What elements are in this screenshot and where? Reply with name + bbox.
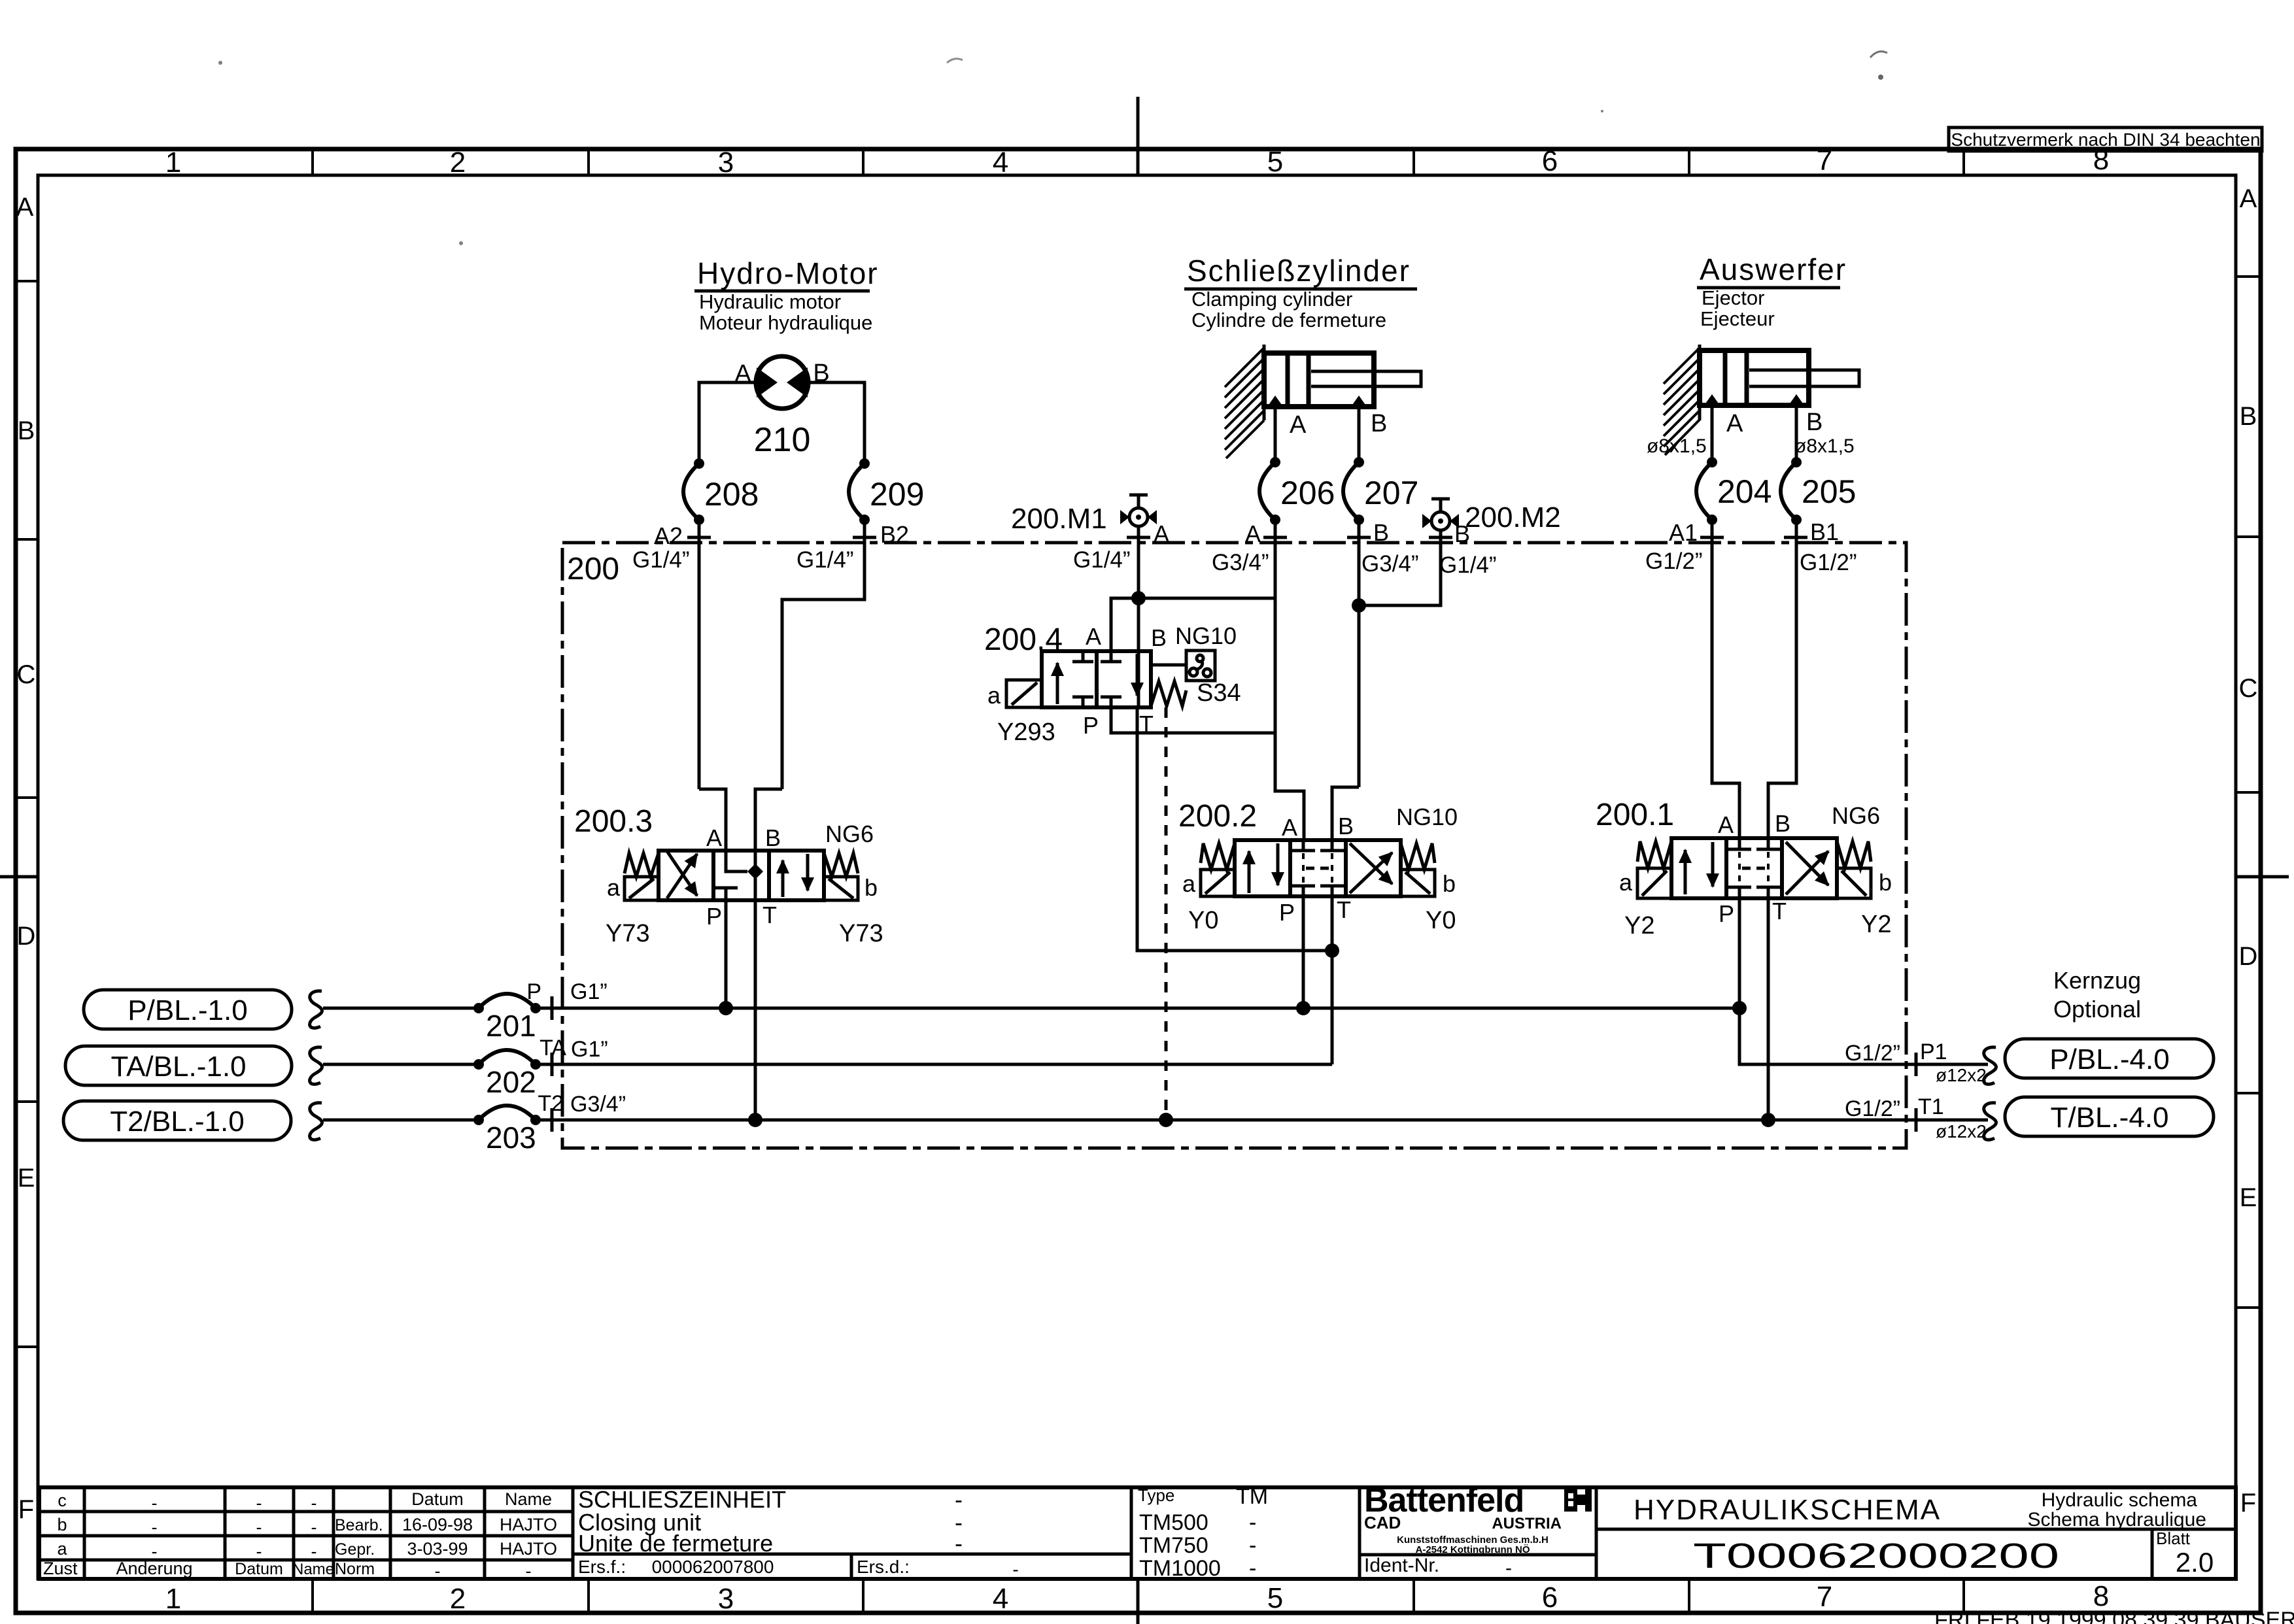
ejector port B bbox=[1789, 394, 1804, 405]
svg-text:200.1: 200.1 bbox=[1596, 798, 1674, 832]
svg-text:a: a bbox=[1182, 870, 1196, 897]
top grid numbers bbox=[165, 144, 2109, 178]
svg-text:Y73: Y73 bbox=[839, 920, 883, 947]
svg-text:5: 5 bbox=[1267, 1582, 1283, 1614]
coupling 204 bbox=[1696, 457, 1772, 525]
P rail bbox=[536, 1007, 1739, 1010]
left port ticks bbox=[551, 996, 554, 1132]
wire junction M1 to cylinder A line bbox=[1138, 597, 1275, 600]
svg-text:2: 2 bbox=[450, 146, 466, 178]
coupling 202 bbox=[473, 1050, 541, 1099]
thread size labels bbox=[632, 547, 1857, 578]
svg-text:200.2: 200.2 bbox=[1178, 799, 1257, 834]
junction dots bbox=[1131, 591, 1146, 605]
svg-text:A-2542 Kottingbrunn NÖ: A-2542 Kottingbrunn NÖ bbox=[1416, 1544, 1530, 1555]
svg-text:A2: A2 bbox=[654, 522, 683, 549]
valve 200.2 right spring bbox=[1401, 843, 1435, 870]
T1 squiggle bbox=[1984, 1103, 1996, 1140]
svg-text:Datum: Datum bbox=[411, 1489, 464, 1509]
svg-text:3-03-99: 3-03-99 bbox=[407, 1539, 468, 1559]
svg-text:T00062000200: T00062000200 bbox=[1693, 1536, 2059, 1576]
svg-text:4: 4 bbox=[993, 146, 1008, 178]
Battenfeld logo mark bbox=[1564, 1488, 1592, 1512]
svg-text:-: - bbox=[435, 1561, 441, 1581]
valve 200.1 right spring bbox=[1837, 841, 1871, 868]
svg-text:Datum: Datum bbox=[235, 1560, 283, 1578]
ejector port A bbox=[1704, 394, 1720, 405]
svg-text:b: b bbox=[1443, 870, 1456, 897]
right center mark bbox=[2236, 875, 2289, 879]
port ticks on manifold top bbox=[687, 536, 1807, 539]
svg-text:T: T bbox=[762, 902, 777, 928]
clamping cylinder piston bbox=[1288, 353, 1309, 407]
svg-text:C: C bbox=[17, 660, 36, 689]
svg-text:TM1000: TM1000 bbox=[1139, 1556, 1221, 1581]
scan smudges bbox=[1870, 52, 1887, 58]
svg-text:G3/4”: G3/4” bbox=[570, 1092, 626, 1117]
svg-text:P/BL.-1.0: P/BL.-1.0 bbox=[128, 994, 247, 1026]
svg-text:Y0: Y0 bbox=[1426, 907, 1456, 934]
T2 rail squiggle and stub bbox=[310, 1103, 322, 1140]
wire valve 200.4 B through to T bbox=[1137, 651, 1140, 707]
valve 200.1 solenoid b bbox=[1837, 868, 1871, 898]
svg-text:T2/BL.-1.0: T2/BL.-1.0 bbox=[110, 1106, 244, 1138]
svg-text:B: B bbox=[1151, 624, 1167, 651]
svg-text:200.M1: 200.M1 bbox=[1011, 503, 1107, 535]
svg-text:E: E bbox=[18, 1164, 35, 1193]
svg-text:Hydraulic schema: Hydraulic schema bbox=[2042, 1489, 2198, 1511]
svg-text:A: A bbox=[1718, 811, 1734, 838]
svg-text:P/BL.-4.0: P/BL.-4.0 bbox=[2049, 1043, 2169, 1075]
svg-text:200: 200 bbox=[567, 552, 619, 586]
svg-text:-: - bbox=[152, 1493, 158, 1513]
wire ej B to coupling 205 bbox=[1795, 405, 1798, 462]
valve 200.1 right square crossed arrows bbox=[1786, 851, 1828, 894]
svg-text:c: c bbox=[58, 1491, 67, 1510]
svg-text:AUSTRIA: AUSTRIA bbox=[1492, 1515, 1562, 1532]
svg-text:B: B bbox=[1371, 410, 1387, 437]
svg-text:NG10: NG10 bbox=[1396, 804, 1458, 830]
svg-text:16-09-98: 16-09-98 bbox=[402, 1515, 473, 1534]
svg-text:206: 206 bbox=[1280, 475, 1335, 511]
svg-text:2: 2 bbox=[450, 1583, 466, 1615]
P1 squiggle bbox=[1984, 1047, 1996, 1085]
svg-text:Name: Name bbox=[292, 1561, 334, 1578]
svg-text:Schutzvermerk nach DIN 34 beac: Schutzvermerk nach DIN 34 beachten bbox=[1951, 129, 2260, 150]
right port ticks P1 T1 bbox=[1915, 1053, 1918, 1132]
svg-text:6: 6 bbox=[1542, 145, 1558, 177]
svg-text:B: B bbox=[1338, 813, 1354, 839]
svg-text:1: 1 bbox=[165, 1583, 181, 1615]
svg-text:ø8x1,5: ø8x1,5 bbox=[1794, 435, 1855, 457]
svg-text:G1”: G1” bbox=[570, 979, 608, 1004]
svg-text:-: - bbox=[1249, 1556, 1256, 1581]
svg-text:P: P bbox=[706, 903, 722, 930]
wire valve 200.4 P bbox=[1111, 707, 1275, 733]
svg-text:Ers.f.:: Ers.f.: bbox=[578, 1557, 626, 1577]
svg-text:B: B bbox=[18, 416, 35, 445]
svg-text:B1: B1 bbox=[1810, 518, 1839, 545]
ejector wall hatch bbox=[1664, 348, 1700, 455]
svg-text:G1/4”: G1/4” bbox=[1439, 552, 1497, 578]
title block vertical dividers bbox=[84, 1487, 2152, 1579]
svg-text:E: E bbox=[2240, 1183, 2257, 1212]
svg-text:200.M2: 200.M2 bbox=[1465, 501, 1561, 533]
wire jog to valve 200.3 port A bbox=[699, 789, 726, 851]
svg-text:Y2: Y2 bbox=[1624, 912, 1654, 939]
T2 rail bbox=[536, 1119, 1988, 1122]
bottom center mark bbox=[1137, 1579, 1140, 1624]
svg-text:D: D bbox=[17, 922, 36, 951]
svg-text:G3/4”: G3/4” bbox=[1361, 551, 1419, 577]
wire cyl A to coupling 206 bbox=[1274, 407, 1277, 462]
svg-text:-: - bbox=[1249, 1510, 1256, 1535]
left grid letters bbox=[16, 193, 36, 1524]
svg-text:Moteur hydraulique: Moteur hydraulique bbox=[699, 311, 872, 334]
measuring point 200.M2 bbox=[1422, 499, 1561, 533]
valve 200.1 solenoid a bbox=[1637, 868, 1671, 898]
svg-text:A: A bbox=[2240, 184, 2257, 213]
svg-text:T2: T2 bbox=[538, 1091, 564, 1116]
svg-text:-: - bbox=[526, 1561, 532, 1581]
svg-text:Optional: Optional bbox=[2053, 996, 2141, 1023]
valve 200.2 solenoid b bbox=[1401, 870, 1435, 896]
svg-text:TM750: TM750 bbox=[1139, 1533, 1208, 1558]
svg-text:TA/BL.-1.0: TA/BL.-1.0 bbox=[111, 1051, 246, 1083]
svg-text:7: 7 bbox=[1817, 144, 1832, 177]
svg-text:Schließzylinder: Schließzylinder bbox=[1187, 254, 1411, 288]
svg-text:G1/2”: G1/2” bbox=[1645, 549, 1703, 574]
svg-text:B: B bbox=[1775, 810, 1790, 837]
valve 200.1 left spring bbox=[1637, 841, 1671, 868]
valve 200.2 body bbox=[1235, 840, 1401, 896]
svg-text:207: 207 bbox=[1364, 475, 1418, 511]
svg-text:-: - bbox=[311, 1517, 317, 1537]
wire valve 200.2 P to P rail bbox=[1302, 896, 1305, 1008]
svg-text:A: A bbox=[1086, 623, 1101, 650]
svg-text:ø8x1,5: ø8x1,5 bbox=[1647, 435, 1707, 457]
wire valve 200.3 P to P rail bbox=[725, 900, 728, 1008]
svg-text:G1”: G1” bbox=[571, 1037, 608, 1062]
svg-text:a: a bbox=[607, 874, 621, 901]
svg-text:Unite de fermeture: Unite de fermeture bbox=[578, 1530, 773, 1557]
svg-text:b: b bbox=[57, 1515, 67, 1534]
svg-text:A: A bbox=[1282, 814, 1297, 841]
svg-text:Y293: Y293 bbox=[997, 719, 1055, 746]
svg-text:7: 7 bbox=[1817, 1581, 1832, 1613]
svg-text:B: B bbox=[2240, 402, 2257, 431]
wire 209 to port B2 bbox=[782, 520, 865, 789]
svg-text:P: P bbox=[526, 979, 541, 1004]
svg-text:Y73: Y73 bbox=[606, 920, 650, 947]
svg-text:203: 203 bbox=[486, 1121, 536, 1155]
svg-text:a: a bbox=[57, 1539, 67, 1559]
wire cylinder A down jog to valve 200.2 A bbox=[1275, 733, 1304, 840]
svg-text:b: b bbox=[1879, 869, 1892, 896]
svg-text:Ejector: Ejector bbox=[1702, 286, 1764, 309]
svg-text:B: B bbox=[765, 824, 781, 851]
svg-text:A: A bbox=[706, 824, 722, 851]
node T/BL.-4.0 bbox=[2005, 1097, 2214, 1136]
wire 205 to port B1 bbox=[1768, 520, 1796, 838]
svg-text:210: 210 bbox=[754, 421, 811, 459]
coupling 208 bbox=[683, 458, 759, 525]
svg-text:3: 3 bbox=[718, 1583, 734, 1615]
svg-text:-: - bbox=[955, 1530, 963, 1557]
TA rail bbox=[536, 1063, 1332, 1066]
Schutzvermerk box bbox=[1949, 127, 2262, 151]
svg-text:205: 205 bbox=[1802, 473, 1856, 510]
svg-text:-: - bbox=[311, 1493, 317, 1513]
limit switch S34 bbox=[1151, 651, 1241, 707]
title text block bbox=[578, 1486, 963, 1557]
svg-text:P: P bbox=[1083, 712, 1099, 739]
wire 207 to port B bbox=[1358, 520, 1361, 787]
svg-text:C: C bbox=[2239, 674, 2258, 703]
right grid letters bbox=[2239, 184, 2258, 1517]
svg-text:Hydro-Motor: Hydro-Motor bbox=[697, 256, 879, 290]
svg-text:Bearb.: Bearb. bbox=[335, 1516, 383, 1534]
bottom band column dividers bbox=[313, 1579, 1964, 1613]
svg-text:-: - bbox=[152, 1517, 158, 1537]
svg-text:a: a bbox=[1619, 869, 1633, 896]
coupling 207 bbox=[1343, 457, 1418, 525]
valve 200.3 solenoid a bbox=[625, 877, 659, 900]
svg-text:B: B bbox=[1806, 409, 1823, 436]
P rail squiggle and stub bbox=[310, 991, 322, 1028]
wire cyl B to coupling 207 bbox=[1358, 407, 1361, 462]
svg-text:Auswerfer: Auswerfer bbox=[1700, 252, 1847, 286]
svg-text:208: 208 bbox=[704, 476, 759, 513]
svg-text:T/BL.-4.0: T/BL.-4.0 bbox=[2051, 1102, 2169, 1134]
svg-text:B: B bbox=[1454, 520, 1470, 547]
coupling 209 bbox=[849, 458, 924, 525]
svg-text:3: 3 bbox=[718, 146, 734, 178]
node TA/BL.-1.0 bbox=[65, 1046, 292, 1085]
valve 200.3 solenoid b bbox=[824, 877, 858, 900]
port labels on manifold top bbox=[654, 518, 1839, 549]
valve 200.1 body bbox=[1671, 838, 1837, 898]
svg-text:T1: T1 bbox=[1918, 1094, 1944, 1119]
svg-text:Cylindre de fermeture: Cylindre de fermeture bbox=[1191, 309, 1386, 331]
title block outline bbox=[39, 1487, 2236, 1579]
svg-text:-: - bbox=[256, 1493, 262, 1513]
ejector wall bbox=[1698, 345, 1702, 420]
valve 200.4 right spring bbox=[1151, 681, 1186, 706]
ejector cylinder body bbox=[1700, 350, 1809, 405]
right band row ticks bbox=[2236, 277, 2261, 1308]
valve 200.1 left square arrows bbox=[1684, 850, 1687, 894]
valve 200.3 left spring bbox=[625, 853, 659, 877]
coupling 201 bbox=[473, 994, 541, 1043]
svg-text:T: T bbox=[1772, 898, 1787, 924]
valve 200.3 left square crossed arrows bbox=[667, 854, 697, 898]
svg-text:ø12x2: ø12x2 bbox=[1936, 1121, 1987, 1142]
svg-text:Y2: Y2 bbox=[1861, 911, 1891, 938]
svg-text:G1/2”: G1/2” bbox=[1800, 550, 1857, 575]
svg-text:F: F bbox=[2240, 1489, 2256, 1517]
clamping cylinder port B bbox=[1351, 396, 1367, 407]
svg-text:Clamping cylinder: Clamping cylinder bbox=[1191, 288, 1352, 311]
valve 200.2 left square arrows bbox=[1248, 851, 1251, 893]
svg-text:A: A bbox=[16, 193, 34, 222]
svg-text:Name: Name bbox=[505, 1489, 552, 1509]
valve 200.3 right spring bbox=[824, 853, 858, 877]
coupling 203 bbox=[473, 1106, 541, 1155]
svg-text:TM500: TM500 bbox=[1139, 1510, 1208, 1535]
valve 200.2 left spring bbox=[1201, 843, 1235, 870]
svg-text:-: - bbox=[256, 1542, 262, 1561]
valve 200.4 right square bbox=[1101, 651, 1121, 707]
node P/BL.-4.0 bbox=[2005, 1039, 2214, 1078]
svg-text:G1/4”: G1/4” bbox=[632, 547, 690, 573]
revision table texts bbox=[43, 1489, 557, 1581]
clamping cylinder wall hatch bbox=[1225, 348, 1264, 458]
svg-text:A: A bbox=[1245, 520, 1261, 547]
wire cyl B jog to valve 200.2 B bbox=[1332, 787, 1359, 840]
wire motor B to coupling 209 bbox=[808, 382, 865, 464]
wire valve 200.1 P to P1 exit bbox=[1739, 898, 1988, 1064]
svg-text:P: P bbox=[1279, 899, 1295, 926]
svg-text:G1/2”: G1/2” bbox=[1845, 1096, 1900, 1121]
svg-text:NG10: NG10 bbox=[1175, 622, 1237, 649]
svg-text:5: 5 bbox=[1267, 146, 1283, 178]
valve 200.2 solenoid a bbox=[1201, 870, 1235, 896]
svg-text:NG6: NG6 bbox=[825, 820, 874, 847]
svg-text:CAD: CAD bbox=[1364, 1513, 1401, 1532]
pilot drain dashed line bbox=[1165, 707, 1168, 1120]
svg-text:2.0: 2.0 bbox=[2176, 1547, 2214, 1578]
svg-text:A1: A1 bbox=[1669, 519, 1698, 546]
svg-text:-: - bbox=[311, 1542, 317, 1561]
svg-text:-: - bbox=[1505, 1557, 1512, 1579]
svg-text:6: 6 bbox=[1542, 1582, 1558, 1614]
valve 200.2 centre position blocked bbox=[1292, 840, 1344, 851]
wire M2 down to junction bbox=[1359, 530, 1441, 605]
svg-text:1: 1 bbox=[165, 146, 181, 178]
bottom grid numbers bbox=[165, 1580, 2109, 1615]
svg-text:Ident-Nr.: Ident-Nr. bbox=[1364, 1555, 1439, 1576]
clamping cylinder body bbox=[1264, 353, 1374, 407]
svg-text:P: P bbox=[1719, 900, 1734, 927]
node P/BL.-1.0 bbox=[84, 990, 292, 1029]
wire 204 to port A1 bbox=[1712, 520, 1739, 838]
ejector piston bbox=[1725, 350, 1747, 405]
svg-text:Blatt: Blatt bbox=[2156, 1529, 2191, 1548]
node T2/BL.-1.0 bbox=[63, 1101, 291, 1140]
svg-text:F: F bbox=[18, 1495, 34, 1524]
svg-text:200.3: 200.3 bbox=[574, 804, 653, 839]
valve 200.3 body bbox=[659, 851, 824, 900]
svg-text:P1: P1 bbox=[1920, 1040, 1947, 1064]
TA rail squiggle and stub bbox=[310, 1047, 322, 1085]
svg-text:Norm: Norm bbox=[335, 1560, 375, 1578]
svg-text:T: T bbox=[1337, 896, 1351, 923]
title block horizontal dividers bbox=[39, 1512, 2236, 1560]
svg-text:b: b bbox=[865, 874, 878, 901]
coupling 205 bbox=[1781, 457, 1856, 525]
valve 200.2 right square crossed arrows bbox=[1350, 853, 1392, 893]
wire ej A to coupling 204 bbox=[1711, 405, 1714, 462]
svg-text:B2: B2 bbox=[880, 521, 909, 548]
wire 208 to port A2 bbox=[698, 520, 701, 789]
svg-text:-: - bbox=[1249, 1533, 1256, 1558]
svg-text:204: 204 bbox=[1717, 473, 1772, 510]
wire motor A to coupling 208 bbox=[699, 382, 756, 464]
wire valve 200.4 T down bbox=[1137, 707, 1332, 951]
valve 200.4 left square bbox=[1056, 663, 1059, 704]
svg-text:Type: Type bbox=[1138, 1485, 1174, 1505]
svg-text:201: 201 bbox=[486, 1009, 536, 1043]
wire valve 200.2 T to TA rail bbox=[1331, 896, 1334, 1064]
svg-text:G1/2”: G1/2” bbox=[1845, 1041, 1900, 1066]
measuring point 200.M1 bbox=[1011, 495, 1157, 535]
svg-text:ø12x2: ø12x2 bbox=[1936, 1065, 1987, 1085]
valve 200.1 centre position blocked bbox=[1728, 838, 1780, 849]
svg-text:D: D bbox=[2239, 942, 2258, 971]
wire valve 200.1 T to T2 rail bbox=[1767, 898, 1770, 1120]
svg-text:G1/4”: G1/4” bbox=[1073, 547, 1131, 573]
svg-text:A: A bbox=[1154, 520, 1169, 547]
valve 200.4 body bbox=[1042, 651, 1151, 707]
svg-text:S34: S34 bbox=[1197, 679, 1241, 707]
clamping cylinder wall bbox=[1263, 345, 1266, 420]
wire jog to valve 200.3 port B bbox=[755, 789, 782, 851]
hydro motor 210 bbox=[734, 356, 829, 459]
svg-text:FRI FEB 19 1999 08 39 39 BAUSE: FRI FEB 19 1999 08 39 39 BAUSERE! bbox=[1934, 1608, 2294, 1624]
svg-text:A: A bbox=[1290, 411, 1307, 439]
left center mark bbox=[0, 875, 38, 879]
svg-text:G1/4”: G1/4” bbox=[796, 547, 854, 573]
wire 206 to port A bbox=[1274, 520, 1277, 733]
svg-text:HAJTO: HAJTO bbox=[500, 1539, 557, 1559]
svg-text:-: - bbox=[256, 1517, 262, 1537]
svg-text:Änderung: Änderung bbox=[116, 1559, 192, 1578]
ejector rod bbox=[1749, 370, 1859, 386]
svg-text:Ers.d.:: Ers.d.: bbox=[857, 1557, 910, 1577]
svg-text:TA: TA bbox=[539, 1036, 566, 1060]
svg-text:A: A bbox=[1726, 410, 1743, 437]
svg-text:202: 202 bbox=[486, 1065, 536, 1099]
valve 200.3 right square arrows bbox=[781, 860, 785, 897]
top band column dividers bbox=[313, 149, 1964, 175]
svg-text:Zust: Zust bbox=[43, 1559, 78, 1578]
svg-text:4: 4 bbox=[993, 1583, 1008, 1615]
svg-text:000062007800: 000062007800 bbox=[652, 1557, 774, 1577]
svg-text:Y0: Y0 bbox=[1188, 907, 1218, 934]
svg-text:G3/4”: G3/4” bbox=[1212, 550, 1269, 575]
wire junction to valve 200.4 A bbox=[1111, 598, 1138, 651]
svg-text:a: a bbox=[987, 682, 1001, 709]
svg-text:B: B bbox=[1373, 519, 1389, 546]
svg-text:Schema hydraulique: Schema hydraulique bbox=[2027, 1509, 2206, 1531]
svg-text:HAJTO: HAJTO bbox=[500, 1515, 557, 1534]
svg-text:NG6: NG6 bbox=[1832, 802, 1880, 829]
coupling 206 bbox=[1259, 457, 1335, 525]
svg-text:Hydraulic motor: Hydraulic motor bbox=[699, 290, 841, 313]
svg-text:HYDRAULIKSCHEMA: HYDRAULIKSCHEMA bbox=[1634, 1494, 1941, 1526]
manifold dash-dot boundary 200 bbox=[562, 543, 1906, 1148]
valve 200.4 solenoid Y293 bbox=[1006, 680, 1042, 707]
svg-text:Ejecteur: Ejecteur bbox=[1700, 307, 1775, 330]
svg-text:Kernzug: Kernzug bbox=[2053, 967, 2141, 994]
clamping cylinder port A bbox=[1267, 396, 1283, 407]
svg-text:TM: TM bbox=[1236, 1484, 1268, 1509]
svg-text:Gepr.: Gepr. bbox=[335, 1540, 375, 1559]
svg-text:209: 209 bbox=[870, 476, 924, 513]
svg-text:-: - bbox=[1012, 1559, 1018, 1580]
clamping cylinder rod bbox=[1311, 371, 1421, 386]
